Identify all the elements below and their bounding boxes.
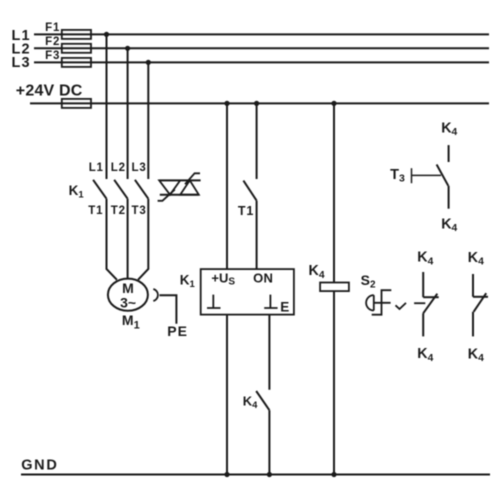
wire top of T3-actuated contact K4	[448, 145, 450, 162]
svg-text:L2: L2	[111, 162, 126, 174]
wire block right output to K4 contact	[268, 315, 270, 390]
svg-text:F2: F2	[45, 36, 60, 48]
node junction GND / K4 contact wire	[267, 472, 272, 477]
svg-text:L3: L3	[12, 55, 31, 71]
thyristor gate lead top right	[185, 173, 200, 184]
node junction +24V / +Us wire	[224, 101, 229, 106]
fuse on +24V DC rail	[62, 99, 91, 108]
wire phase 3 drop from L3 to contact	[147, 62, 149, 179]
svg-text:T2: T2	[111, 205, 126, 217]
wire phase 1 contact to motor	[107, 199, 117, 280]
svg-text:T3: T3	[132, 205, 147, 217]
wire bottom of T3-actuated contact K4	[448, 186, 450, 209]
svg-text:M1: M1	[122, 312, 140, 331]
pushbutton S2 check mark	[396, 303, 407, 309]
wire +24V to block +Us input	[226, 103, 228, 269]
svg-text:E: E	[280, 299, 289, 314]
svg-text:+US: +US	[211, 271, 235, 288]
thyristor gate lead bottom left	[158, 190, 175, 201]
wire phase 2 drop from L2 to contact	[127, 48, 129, 179]
svg-text:F1: F1	[45, 22, 60, 34]
pushbutton S2 bracket linkage	[372, 290, 392, 315]
svg-text:K1: K1	[69, 183, 85, 201]
svg-text:L3: L3	[132, 162, 147, 174]
wire phase 2 contact to motor	[127, 199, 129, 279]
NC contact K4 (left) seat bar	[423, 296, 439, 298]
T3 actuator terminal tick	[411, 168, 413, 183]
T3 actuator linkage line	[412, 174, 442, 176]
svg-text:T3: T3	[390, 167, 405, 185]
ground symbol inside block left	[207, 295, 221, 308]
wire L3 rail	[34, 61, 489, 63]
node junction L1 rail / phase 1 drop	[104, 32, 109, 37]
svg-text:PE: PE	[167, 323, 188, 339]
wire K4 contact to GND	[268, 410, 270, 474]
NC contact K4 (left) blade	[423, 294, 437, 314]
thyristor soft-start symbol bottom rail	[160, 194, 199, 196]
NC contact K4 (right) seat bar	[473, 296, 488, 298]
svg-text:M: M	[122, 280, 134, 296]
contactor K1 contact pole 2 blade	[114, 180, 127, 199]
wire +24V DC rail	[30, 102, 489, 104]
svg-text:K4: K4	[441, 216, 457, 234]
motor M1 circle	[108, 279, 148, 311]
wire bottom of NC contact K4 (right)	[472, 312, 474, 337]
svg-text:K4: K4	[468, 346, 484, 364]
motor PE terminal arc	[153, 289, 158, 301]
svg-text:K4: K4	[468, 250, 484, 268]
contact K4 blade below block	[256, 391, 269, 410]
svg-text:K4: K4	[309, 263, 325, 281]
wire bottom of NC contact K4 (left)	[422, 313, 424, 336]
contactor K1 contact pole 3 blade	[135, 180, 148, 199]
svg-text:ON: ON	[253, 270, 273, 285]
coil K4	[320, 283, 349, 292]
svg-text:3~: 3~	[120, 294, 136, 310]
wire GND rail	[21, 474, 490, 476]
node junction GND / coil wire	[331, 472, 336, 477]
contact T1 blade	[243, 181, 256, 201]
svg-text:K4: K4	[243, 393, 258, 411]
soft starter block K1	[201, 269, 294, 315]
svg-text:K1: K1	[180, 273, 196, 291]
wire +24V to coil K4	[333, 103, 335, 282]
wire phase 1 drop from L1 to contact	[106, 34, 108, 179]
svg-text:+24V DC: +24V DC	[16, 82, 83, 99]
svg-text:S2: S2	[361, 272, 376, 291]
thyristor left SCR triangle	[159, 180, 180, 194]
wire top of NC contact K4 (left)	[422, 272, 424, 297]
svg-text:L1: L1	[89, 162, 104, 174]
wire L2 rail	[34, 47, 489, 49]
thyristor soft-start symbol top rail	[159, 179, 200, 181]
fuse F1	[62, 30, 91, 39]
contactor K1 contact pole 1 blade	[93, 180, 106, 199]
node junction L3 rail / phase 3 drop	[146, 60, 151, 65]
wire block left output to GND	[226, 315, 228, 475]
fuse F3	[62, 58, 91, 67]
wire L1 rail	[34, 33, 489, 35]
svg-text:T1: T1	[238, 204, 254, 218]
mechanical link dash to K4 contact	[414, 302, 425, 304]
node junction +24V / ON wire	[254, 101, 259, 106]
pushbutton S2 plunger line	[374, 302, 391, 304]
svg-text:T1: T1	[88, 205, 103, 217]
wire T1 contact to block ON input	[256, 201, 258, 270]
NC contact K4 (right) blade	[474, 293, 487, 312]
svg-text:K4: K4	[441, 120, 457, 138]
ground symbol inside block right (E)	[264, 295, 277, 308]
svg-text:GND: GND	[21, 458, 58, 474]
node junction +24V / coil wire	[331, 101, 336, 106]
node junction GND / block left output	[224, 472, 229, 477]
wire +24V to T1 contact	[256, 103, 258, 179]
wire PE from motor	[160, 295, 177, 324]
pushbutton S2 mushroom head	[366, 295, 374, 310]
wire top of NC contact K4 (right)	[472, 274, 474, 297]
fuse F2	[62, 44, 91, 53]
node junction L2 rail / phase 2 drop	[125, 46, 130, 51]
svg-text:K4: K4	[417, 250, 433, 268]
svg-text:F3: F3	[45, 50, 60, 62]
wire coil K4 to GND	[333, 291, 335, 474]
svg-text:K4: K4	[417, 346, 433, 364]
thyristor right SCR triangle	[180, 180, 199, 194]
contact K4 blade (T3 actuated)	[437, 165, 449, 186]
wire phase 3 contact to motor	[138, 199, 148, 280]
